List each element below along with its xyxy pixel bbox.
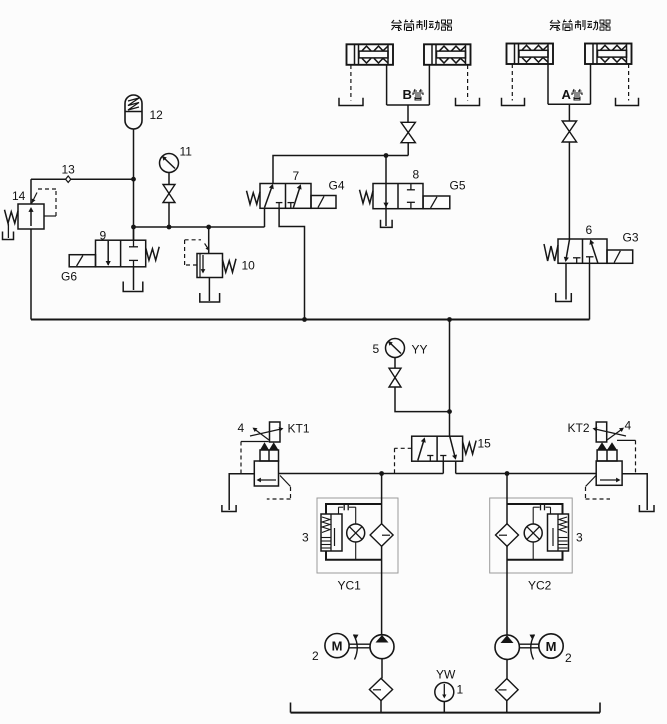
svg-text:12: 12 <box>150 108 164 122</box>
svg-text:6: 6 <box>586 223 593 237</box>
wire A valve to valve 6 <box>568 142 570 239</box>
pressure switch YC1 <box>321 514 342 551</box>
label G5 <box>450 179 466 193</box>
label YC2 <box>528 579 552 593</box>
needle valve under gauge 11 <box>163 185 175 203</box>
label KT1 <box>288 422 310 436</box>
contact wire YC1 <box>339 504 356 524</box>
junction dot YC1 branch <box>379 471 384 476</box>
svg-text:KT2: KT2 <box>568 421 590 435</box>
wire A-left to A pipe <box>547 64 549 104</box>
YC1 outer box <box>317 498 398 573</box>
tank under B-left <box>339 98 363 106</box>
label A管 <box>562 87 583 102</box>
wire filter left to tank bus <box>380 701 382 713</box>
wire valve 10 to tank <box>208 278 210 302</box>
junction dot YC2 branch <box>505 471 510 476</box>
tank under KT1 <box>222 505 236 512</box>
spring valve 8 <box>360 190 374 204</box>
svg-text:9: 9 <box>100 229 107 243</box>
wire valve 6 to tank <box>565 263 567 299</box>
spring valve 15 <box>463 441 477 455</box>
junction dot bus left <box>302 317 307 322</box>
filter diamond YC2 <box>496 524 519 547</box>
label G6 <box>61 270 77 284</box>
wire B valve to node <box>407 143 409 156</box>
filter diamond YC1 <box>370 524 393 547</box>
wire valve 6 to bus <box>589 263 591 319</box>
wire manifold to valve 10 <box>208 227 210 254</box>
wire B-right to B pipe <box>428 65 430 105</box>
wire node13 line <box>31 178 134 180</box>
svg-text:2: 2 <box>565 651 572 665</box>
wire dashed B-left drain <box>350 65 352 101</box>
label YC1 <box>338 579 362 593</box>
label 4 left <box>238 421 245 435</box>
svg-text:11: 11 <box>180 145 193 159</box>
svg-text:10: 10 <box>242 259 256 273</box>
shaft left <box>349 644 370 648</box>
wire dashed A-right drain <box>628 64 630 101</box>
wire A pipe <box>548 103 591 105</box>
wire left distribution <box>279 473 444 475</box>
wire accumulator down <box>133 129 135 179</box>
svg-text:G5: G5 <box>450 179 466 193</box>
wire A pipe down <box>568 104 570 121</box>
wire YC1 top heavy <box>326 504 382 514</box>
wire valve7 top to B valve <box>273 156 408 184</box>
junction dot gauge 5 branch <box>447 409 452 414</box>
svg-text:KT1: KT1 <box>288 422 310 436</box>
rotation arrow right <box>530 635 535 660</box>
wire valve15 right port down <box>455 461 457 473</box>
rotation arrow left <box>354 635 359 660</box>
label 2 right <box>565 651 572 665</box>
spring valve 14 <box>5 210 19 224</box>
label 14 <box>12 189 26 203</box>
wire valve 8 to tank <box>385 209 387 226</box>
svg-text:G3: G3 <box>623 231 639 245</box>
label YY <box>412 343 428 357</box>
svg-text:B: B <box>403 87 412 102</box>
svg-text:3: 3 <box>576 531 583 545</box>
pump 2 left <box>370 635 394 659</box>
pressure gauge 5 <box>386 339 405 358</box>
wire YC2 circle down <box>532 542 534 560</box>
tank under valve 6 <box>556 293 572 302</box>
wire valve7 mid port to bus <box>279 208 304 319</box>
spring valve 10 <box>223 259 237 273</box>
spring valve 9 <box>146 247 160 261</box>
label 10 <box>242 259 256 273</box>
brake valve KT2 adjuster <box>593 422 627 442</box>
wire pump right down <box>506 659 508 678</box>
shaft right <box>520 644 539 648</box>
wire valve 14 down to bus <box>30 229 32 320</box>
check poppets KT1 <box>260 442 279 461</box>
wire dashed B-right drain <box>467 65 469 101</box>
svg-text:14: 14 <box>12 189 26 203</box>
wire dashed A-left drain <box>511 64 513 101</box>
wire gauge 11 down <box>168 173 170 185</box>
wire valve7 left port to manifold <box>264 208 266 227</box>
svg-text:5: 5 <box>373 342 380 356</box>
motor M right <box>539 634 563 658</box>
label 4 right <box>625 419 632 433</box>
label 1 <box>457 683 464 697</box>
junction dot gauge branch <box>167 225 172 230</box>
svg-text:YW: YW <box>436 668 456 682</box>
label 9 <box>100 229 107 243</box>
pilot dashed valve 15 <box>395 448 412 473</box>
wire B pipe down <box>407 105 409 122</box>
wire KT2 to tank <box>622 474 647 510</box>
wire valve14 riser <box>30 179 32 204</box>
svg-text:4: 4 <box>625 419 632 433</box>
solenoid valve 8 <box>423 196 450 209</box>
svg-text:M: M <box>546 639 557 654</box>
shutoff valve B <box>401 122 415 142</box>
svg-text:YC2: YC2 <box>528 579 552 593</box>
wire YC2 bottom heavy <box>507 551 563 560</box>
wire needle valve 11 to manifold <box>168 203 170 228</box>
label KT2 <box>568 421 590 435</box>
wire YC1 main <box>381 474 383 635</box>
indicator circle YC2 <box>524 524 542 542</box>
motor M left <box>325 634 349 658</box>
brake cylinder B-right <box>424 44 471 65</box>
wire needle valve 5 to main <box>395 387 450 412</box>
tank under valve 14 spring <box>3 232 14 240</box>
wire manifold horizontal <box>134 226 265 228</box>
2/2 solenoid valve 8 <box>373 184 423 209</box>
brake cylinder A-left <box>507 44 554 65</box>
tank under valve 8 <box>381 220 393 228</box>
label B管 <box>403 87 424 102</box>
tank under A-left <box>502 98 525 106</box>
brake valve KT2 body <box>596 461 622 485</box>
relief valve 14 <box>18 193 44 230</box>
wire manifold to valve 9 <box>133 227 135 240</box>
svg-text:YC1: YC1 <box>338 579 362 593</box>
junction dot bus right <box>447 317 452 322</box>
brake cylinder B-left <box>347 44 394 65</box>
pilot dashed KT2 left <box>586 476 611 500</box>
label 7 <box>293 169 300 183</box>
wire YW down <box>443 702 445 713</box>
svg-text:4: 4 <box>238 421 245 435</box>
needle valve under gauge 5 <box>389 368 401 387</box>
label 2 left <box>312 649 319 663</box>
label YW <box>436 668 456 682</box>
3/2 solenoid valve 15 <box>412 436 463 461</box>
label 12 <box>150 108 164 122</box>
label 6 <box>586 223 593 237</box>
wire main bus <box>31 319 590 321</box>
contact wire YC2 <box>533 504 550 524</box>
brake cylinder A-right <box>585 44 632 65</box>
3/2 solenoid valve 7 <box>260 184 311 209</box>
wire tank bus <box>291 703 601 713</box>
wire valve14 spring to tank <box>7 224 9 239</box>
2/2 solenoid valve 9 <box>96 240 146 267</box>
pressure switch YC2 <box>548 514 569 551</box>
junction dot accumulator/node13 <box>131 177 136 182</box>
label 卷筒制动器 (B group) <box>392 20 452 31</box>
wire right distribution <box>456 473 597 475</box>
svg-text:13: 13 <box>62 163 76 177</box>
junction dot at valve8 feed <box>384 153 389 158</box>
spring valve 6 <box>544 244 558 261</box>
label 13 <box>62 163 76 177</box>
label 卷筒制动器 (A group) <box>550 20 610 31</box>
wire YC2 top heavy <box>507 504 563 514</box>
check poppets KT2 <box>597 442 617 461</box>
solenoid valve 6 <box>607 250 633 263</box>
pilot line KT1 <box>241 442 269 474</box>
svg-text:15: 15 <box>478 437 492 451</box>
tank under valve 10 <box>200 293 220 302</box>
brake valve KT1 adjuster <box>250 422 284 442</box>
junction dot valve10 branch <box>206 225 211 230</box>
brake valve KT1 body <box>254 461 278 486</box>
wire filter right to tank bus <box>506 701 508 713</box>
wire bus to valve 15 <box>449 320 451 437</box>
pilot line KT2 <box>617 440 636 473</box>
svg-text:A: A <box>562 87 572 102</box>
label 15 <box>478 437 492 451</box>
svg-text:7: 7 <box>293 169 300 183</box>
reducing valve 10 <box>197 243 223 277</box>
label 11 <box>180 145 193 159</box>
pressure gauge 11 <box>160 154 179 173</box>
svg-text:M: M <box>332 639 343 654</box>
svg-text:2: 2 <box>312 649 319 663</box>
wire B-left to B pipe <box>386 65 388 105</box>
svg-text:8: 8 <box>413 168 420 182</box>
junction dot manifold left <box>131 225 136 230</box>
wire gauge 5 down <box>394 358 396 369</box>
wire valve 9 to tank <box>133 267 135 290</box>
pilot dashed KT1 right <box>267 476 291 500</box>
suction filter right <box>496 679 519 701</box>
tank under valve 9 <box>123 282 143 292</box>
solenoid valve 9 <box>69 255 95 267</box>
svg-text:G6: G6 <box>61 270 77 284</box>
svg-text:1: 1 <box>457 683 464 697</box>
wire down to valve 8 <box>385 156 387 184</box>
pilot dashed valve 14 <box>38 189 56 216</box>
tank under B-right <box>456 98 480 106</box>
label 3 right <box>576 531 583 545</box>
svg-text:G4: G4 <box>329 179 345 193</box>
indicator circle YC1 <box>347 524 365 542</box>
wire pump left down <box>381 659 383 679</box>
accumulator 12 <box>125 95 142 129</box>
YC2 outer box <box>490 498 573 573</box>
label 8 <box>413 168 420 182</box>
wire YC2 main <box>506 474 508 635</box>
suction filter left <box>369 678 392 700</box>
label G3 <box>623 231 639 245</box>
label 5 <box>373 342 380 356</box>
3/2 solenoid valve 6 <box>558 239 607 263</box>
solenoid valve 7 <box>311 196 336 209</box>
svg-text:3: 3 <box>302 531 309 545</box>
wire B pipe <box>387 104 430 106</box>
label G4 <box>329 179 345 193</box>
pilot dashed valve 10 <box>185 240 201 265</box>
wire YC1 bottom heavy <box>326 551 382 560</box>
wire YC1 circle down <box>355 542 357 560</box>
wire accumulator line to manifold <box>133 179 135 240</box>
wire KT1 to tank <box>229 474 254 510</box>
shutoff valve A <box>562 121 576 142</box>
label 3 left <box>302 531 309 545</box>
node 13 diamond <box>66 176 71 182</box>
level gauge YW 1 <box>435 683 454 702</box>
tank under A-right <box>616 98 639 106</box>
pump 2 right <box>495 635 519 659</box>
svg-text:YY: YY <box>412 343 428 357</box>
wire valve15 left port down <box>442 461 444 473</box>
spring valve 7 <box>247 191 261 205</box>
tank under KT2 <box>639 505 654 512</box>
wire A-right to A pipe <box>590 64 592 104</box>
